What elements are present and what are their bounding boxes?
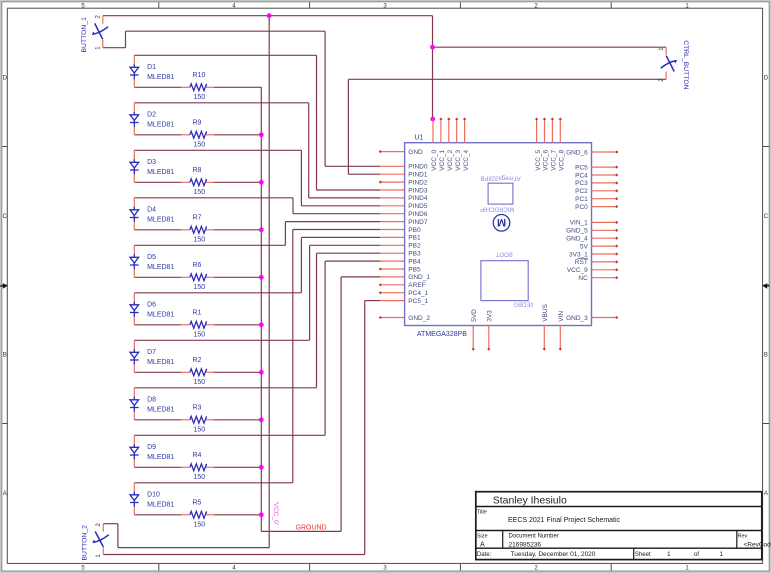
svg-text:D: D [764,75,769,81]
wire LED D5 anode to U1 PIND7 [134,244,285,246]
wire net VCC_0: bottom run to BUTTON_2 [118,547,269,549]
svg-text:PC2: PC2 [575,188,588,195]
svg-text:U1: U1 [415,135,424,142]
U1 pin PIND6 (left) [380,213,404,215]
wire resistor R4 to GROUND bus [214,466,261,468]
wire LED D7 anode to U1 PB2 [134,339,309,341]
svg-text:PC5_1: PC5_1 [408,298,428,305]
LED D10 (MLED81) [133,483,135,493]
svg-text:PC1: PC1 [575,196,588,203]
resistor R1 [181,324,190,326]
svg-text:AREF: AREF [408,282,425,289]
svg-text:A: A [480,542,485,549]
U1 pin GND_1 (left) [380,276,404,278]
wire LED D8 cathode to resistor R3 [134,419,181,421]
wire net GROUND: resistor bus vertical [260,87,262,531]
svg-text:D6: D6 [147,302,156,309]
U1 pin PC0 (right) [592,206,617,208]
wire BUTTON_1 pin 1 to U1 PIND0 [103,47,126,49]
svg-text:D4: D4 [147,207,156,214]
U1 pin 5VD (bottom) [472,326,474,350]
svg-text:GND_2: GND_2 [408,315,430,322]
svg-text:Rev: Rev [738,534,748,540]
svg-text:D8: D8 [147,397,156,404]
switch CTRL_BUTTON [665,47,667,55]
svg-text:MLED81: MLED81 [147,312,174,319]
U1 pin PIND0 (left) [380,165,404,167]
U1 pin PC2 (right) [592,190,617,192]
U1 pin GND (left) [380,151,404,153]
wire net VCC_0: junction to CTRL_BUTTON pin 1 [433,46,667,48]
wire LED D3 anode to U1 PIND5 [134,149,301,151]
junction GROUND bus at R of D9 [259,465,264,470]
wire net GROUND: bottom run [261,530,341,532]
wire LED D5 cathode to resistor R6 [134,276,181,278]
svg-text:1: 1 [667,551,671,558]
svg-text:R1: R1 [193,310,202,317]
LED D2 (MLED81) [133,103,135,113]
U1 inner block BOOT/EDBG [481,261,528,301]
U1 pin VCC_8 (top) [559,119,561,143]
svg-text:R10: R10 [193,72,206,79]
U1 pin NC (right) [592,277,617,279]
svg-text:PB2: PB2 [408,243,421,250]
U1 pin PC1 (right) [592,198,617,200]
U1 pin PIND7 (left) [380,221,404,223]
U1 pin GND_2 (left) [380,317,404,319]
junction GROUND bus at R of D3 [259,180,264,185]
svg-text:PIND0: PIND0 [408,164,428,171]
resistor R9 [181,134,190,136]
svg-text:PIND2: PIND2 [408,179,428,186]
svg-text:PB0: PB0 [408,227,421,234]
svg-text:VCC_5: VCC_5 [535,149,542,170]
wire resistor R10 to GROUND bus [214,86,261,88]
svg-text:ATMEGA328PB: ATMEGA328PB [417,331,467,338]
wire LED D1 anode to U1 PIND3 [134,54,316,56]
svg-text:R6: R6 [193,262,202,269]
junction VCC_0 at CTRL_BUTTON branch [430,45,435,50]
U1 pin PIND1 (left) [380,173,404,175]
svg-text:150: 150 [194,522,206,529]
svg-text:BUTTON_1: BUTTON_1 [81,17,88,53]
U1 pin PC4 (right) [592,174,617,176]
svg-text:MICROCHIP: MICROCHIP [480,206,514,212]
svg-text:1: 1 [720,551,724,558]
U1 pin PIND3 (left) [380,189,404,191]
svg-text:PIND1: PIND1 [408,172,428,179]
wire LED D2 anode to U1 PIND4 [134,102,308,104]
junction GROUND bus at R of D5 [259,275,264,280]
wire BUTTON_2 pin 1 to U1 PC5_1 [103,554,364,556]
switch BUTTON_1 [102,16,104,24]
svg-text:NC: NC [578,275,588,282]
U1 pin PIND5 (left) [380,205,404,207]
wire LED D9 cathode to resistor R4 [134,466,181,468]
resistor R5 [181,514,190,516]
wire LED D6 cathode to resistor R1 [134,324,181,326]
LED D5 (MLED81) [133,245,135,255]
resistor R7 [181,229,190,231]
U1 Microchip logo [493,215,510,232]
svg-text:D3: D3 [147,159,156,166]
junction GROUND bus at R of D10 [259,512,264,517]
svg-text:<RevCode: <RevCode [744,541,771,548]
U1 pin GND_6 (right) [592,151,617,153]
U1 pin PC4_1 (left) [380,292,404,294]
U1 pin VCC_9 (right) [592,269,617,271]
svg-text:PB3: PB3 [408,251,421,258]
wire LED D3 cathode to resistor R8 [134,181,181,183]
U1 pin AREF (left) [380,284,404,286]
svg-text:CTRL_BUTTON: CTRL_BUTTON [682,40,689,89]
U1 inner block ATmega328PB [488,183,513,204]
svg-text:3V3_1: 3V3_1 [569,251,588,258]
U1 pin PC3 (right) [592,182,617,184]
junction VCC_0 at top bus [267,13,272,18]
svg-text:VCC_0: VCC_0 [431,149,438,170]
svg-text:R5: R5 [193,500,202,507]
junction GROUND bus at R of D6 [259,322,264,327]
wire LED D2 cathode to resistor R9 [134,134,181,136]
svg-text:150: 150 [194,284,206,291]
svg-text:GND_4: GND_4 [566,236,588,243]
resistor R2 [181,371,190,373]
LED D4 (MLED81) [133,198,135,208]
wire resistor R7 to GROUND bus [214,229,261,231]
wire resistor R2 to GROUND bus [214,371,261,373]
LED D7 (MLED81) [133,340,135,350]
U1 pin VIN (bottom) [559,326,561,350]
wire resistor R5 to GROUND bus [214,514,261,516]
wire LED D1 cathode to resistor R10 [134,86,181,88]
svg-text:Tuesday, December 01, 2020: Tuesday, December 01, 2020 [511,551,596,558]
U1 pin PB3 (left) [380,252,404,254]
U1 pin PIND4 (left) [380,197,404,199]
wire resistor R1 to GROUND bus [214,324,261,326]
U1 pin VCC_1 (top) [440,119,442,143]
junction GROUND bus at R of D4 [259,227,264,232]
svg-text:3V3: 3V3 [486,310,493,322]
U1 pin VCC_6 (top) [544,119,546,143]
resistor R6 [181,276,190,278]
resistor R8 [181,181,190,183]
U1 pin RST (right) [592,261,617,263]
svg-text:R9: R9 [193,120,202,127]
svg-text:150: 150 [194,474,206,481]
U1 pin PB0 (left) [380,229,404,231]
wire net VCC_0: vertical drop to CTRL junction [432,16,434,48]
svg-text:PB4: PB4 [408,258,421,265]
svg-text:VIN_1: VIN_1 [570,220,588,227]
svg-text:MLED81: MLED81 [147,502,174,509]
U1 pin GND_3 (right) [592,317,617,319]
LED D6 (MLED81) [133,293,135,303]
junction VCC_0 at U1 VCC_0 pin [430,117,435,122]
U1 pin GND_5 (right) [592,229,617,231]
svg-text:D7: D7 [147,349,156,356]
wire LED D8 anode to U1 PB3 [134,387,316,389]
svg-text:PC5: PC5 [575,164,588,171]
svg-text:GND_5: GND_5 [566,228,588,235]
U1 pin VBUS (bottom) [543,326,545,350]
wire CTRL_BUTTON pin 2 to U1 PIND1 [348,78,666,80]
svg-text:VCC_4: VCC_4 [463,149,470,170]
svg-text:VCC_2: VCC_2 [447,149,454,170]
LED D8 (MLED81) [133,388,135,398]
wire resistor R6 to GROUND bus [214,276,261,278]
junction GROUND bus at R of D7 [259,370,264,375]
svg-text:5VD: 5VD [471,309,478,322]
svg-text:MLED81: MLED81 [147,359,174,366]
svg-text:of: of [694,552,699,558]
svg-text:PIND3: PIND3 [408,187,428,194]
U1 pin VCC_3 (top) [456,119,458,143]
svg-text:PIND5: PIND5 [408,203,428,210]
svg-text:PC3: PC3 [575,180,588,187]
U1 pin VCC_5 (top) [536,119,538,143]
svg-text:VCC_6: VCC_6 [543,149,550,170]
svg-text:MLED81: MLED81 [147,74,174,81]
wire net GROUND: riser to U1 GND_1 [340,277,342,532]
LED D1 (MLED81) [133,55,135,65]
wire LED D4 cathode to resistor R7 [134,229,181,231]
svg-text:'VCC_0': 'VCC_0' [272,502,279,525]
wire LED D4 anode to U1 PIND6 [134,197,293,199]
U1 pin VCC_0 (top) [432,119,434,143]
svg-text:A: A [764,491,768,497]
svg-text:RST: RST [575,259,588,266]
svg-text:PB1: PB1 [408,235,421,242]
svg-text:VCC_9: VCC_9 [567,267,588,274]
svg-text:MLED81: MLED81 [147,454,174,461]
svg-text:150: 150 [194,379,206,386]
svg-text:Date:: Date: [477,552,492,558]
U1 pin 5V (right) [592,245,617,247]
wire LED D9 anode to U1 PB4 [134,434,325,436]
svg-text:MLED81: MLED81 [147,122,174,129]
svg-text:PC4: PC4 [575,172,588,179]
svg-text:PIND6: PIND6 [408,211,428,218]
U1 pin PB5 (left) [380,268,404,270]
wire LED D6 anode to U1 PB1 [134,292,301,294]
svg-text:D5: D5 [147,254,156,261]
svg-text:Stanley Ihesiulo: Stanley Ihesiulo [493,494,567,506]
junction GROUND bus at R of D2 [259,132,264,137]
svg-text:PIND4: PIND4 [408,195,428,202]
svg-text:BOOT: BOOT [495,250,512,256]
svg-text:R7: R7 [193,215,202,222]
U1 pin VCC_4 (top) [464,119,466,143]
svg-text:VBUS: VBUS [542,303,549,321]
resistor R3 [181,419,190,421]
svg-text:GND_6: GND_6 [566,149,588,156]
svg-text:C: C [3,214,8,220]
svg-text:VCC_1: VCC_1 [439,149,446,170]
resistor R10 [181,86,190,88]
U1 pin VCC_2 (top) [448,119,450,143]
svg-text:PB5: PB5 [408,266,421,273]
svg-text:M: M [497,216,506,228]
wire net VCC_0: BUTTON_1 pin 2 to corner [103,15,433,17]
U1 pin PIND2 (left) [380,181,404,183]
svg-text:D: D [3,75,8,81]
U1 pin PB1 (left) [380,236,404,238]
svg-text:D1: D1 [147,64,156,71]
svg-text:150: 150 [194,237,206,244]
U1 pin PB2 (left) [380,244,404,246]
svg-text:GND_1: GND_1 [408,274,430,281]
LED D9 (MLED81) [133,435,135,445]
svg-text:150: 150 [194,427,206,434]
svg-text:150: 150 [194,142,206,149]
resistor R4 [181,466,190,468]
svg-text:BUTTON_2: BUTTON_2 [81,525,88,561]
wire net VCC_0: junction down to U1 VCC_0 pin [432,47,434,119]
wire resistor R9 to GROUND bus [214,134,261,136]
svg-text:PC0: PC0 [575,204,588,211]
wire LED D10 anode to U1 PB0 [134,482,292,484]
svg-text:GND: GND [408,149,423,156]
U1 pin 3V3_1 (right) [592,253,617,255]
switch BUTTON_2 [102,524,104,532]
U1 pin VIN_1 (right) [592,221,617,223]
svg-text:VCC_3: VCC_3 [455,149,462,170]
svg-text:MLED81: MLED81 [147,217,174,224]
svg-text:VIN: VIN [558,311,565,322]
svg-text:216985236: 216985236 [509,541,542,548]
svg-text:C: C [764,214,769,220]
svg-text:ATmega328PB: ATmega328PB [480,175,520,181]
svg-text:R4: R4 [193,452,202,459]
U1 pin VCC_7 (top) [551,119,553,143]
svg-text:EECS 2021 Final Project Schema: EECS 2021 Final Project Schematic [508,517,621,524]
LED D3 (MLED81) [133,150,135,160]
svg-text:150: 150 [194,332,206,339]
wire net VCC_0: vertical bus [268,16,270,548]
wire LED D10 cathode to resistor R5 [134,514,181,516]
svg-text:Title: Title [477,509,487,515]
svg-text:MLED81: MLED81 [147,264,174,271]
svg-text:B: B [764,352,768,358]
svg-text:R8: R8 [193,167,202,174]
svg-text:MLED81: MLED81 [147,407,174,414]
svg-text:#EDBG: #EDBG [513,301,534,307]
wire net GROUND: into U1 GND_1 pin [341,276,380,278]
junction GROUND bus at R of D8 [259,417,264,422]
svg-text:MLED81: MLED81 [147,169,174,176]
microcontroller U1 ATMEGA328PB body [405,143,592,326]
svg-text:B: B [3,352,7,358]
svg-text:VCC_7: VCC_7 [551,149,558,170]
svg-text:GROUND: GROUND [296,524,327,531]
U1 pin PB4 (left) [380,260,404,262]
U1 pin PC5_1 (left) [380,300,404,302]
svg-text:Document Number: Document Number [509,534,559,540]
svg-text:D9: D9 [147,444,156,451]
svg-text:GND_3: GND_3 [566,315,588,322]
svg-text:PIND7: PIND7 [408,219,428,226]
svg-text:Sheet: Sheet [635,552,651,558]
svg-text:R2: R2 [193,357,202,364]
svg-text:D10: D10 [147,492,160,499]
svg-text:PC4_1: PC4_1 [408,290,428,297]
U1 pin PC5 (right) [592,166,617,168]
svg-text:150: 150 [194,189,206,196]
svg-text:D2: D2 [147,112,156,119]
svg-text:5V: 5V [580,243,589,250]
wire LED D7 cathode to resistor R2 [134,371,181,373]
svg-text:R3: R3 [193,405,202,412]
wire resistor R8 to GROUND bus [214,181,261,183]
svg-text:VCC_8: VCC_8 [559,149,566,170]
U1 pin 3V3 (bottom) [488,326,490,350]
svg-text:150: 150 [194,94,206,101]
svg-text:Size: Size [477,534,488,540]
svg-text:A: A [3,491,7,497]
U1 pin GND_4 (right) [592,237,617,239]
wire resistor R3 to GROUND bus [214,419,261,421]
